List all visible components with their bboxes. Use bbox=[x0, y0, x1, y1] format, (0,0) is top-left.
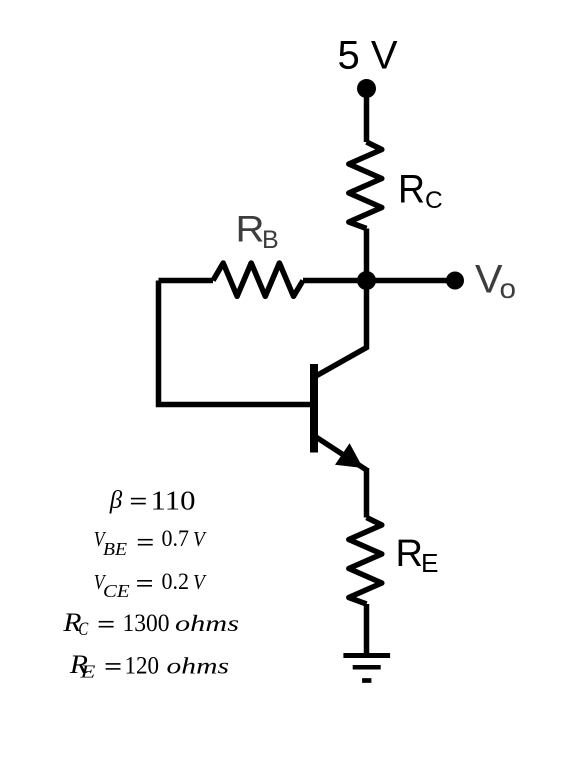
svg-text:β: β bbox=[109, 487, 123, 514]
svg-text:CE: CE bbox=[103, 581, 130, 601]
svg-text:E: E bbox=[421, 548, 439, 578]
svg-text:BE: BE bbox=[103, 539, 127, 559]
svg-text:E: E bbox=[79, 662, 95, 682]
svg-text:1300: 1300 bbox=[123, 610, 170, 637]
svg-text:120: 120 bbox=[125, 652, 160, 679]
svg-text:0.2: 0.2 bbox=[162, 569, 190, 595]
svg-text:ohms: ohms bbox=[175, 611, 239, 636]
svg-text:R: R bbox=[396, 533, 424, 575]
svg-text:R: R bbox=[236, 208, 265, 250]
svg-text:R: R bbox=[398, 168, 425, 212]
svg-text:0.7: 0.7 bbox=[162, 526, 190, 552]
svg-text:C: C bbox=[425, 187, 443, 214]
svg-text:V: V bbox=[193, 528, 207, 551]
svg-text:110: 110 bbox=[151, 486, 196, 516]
svg-text:C: C bbox=[78, 620, 89, 640]
svg-text:V: V bbox=[193, 571, 207, 594]
svg-text:B: B bbox=[262, 226, 279, 254]
svg-text:o: o bbox=[500, 273, 517, 304]
svg-text:ohms: ohms bbox=[167, 653, 230, 678]
svg-text:5 V: 5 V bbox=[337, 34, 397, 78]
